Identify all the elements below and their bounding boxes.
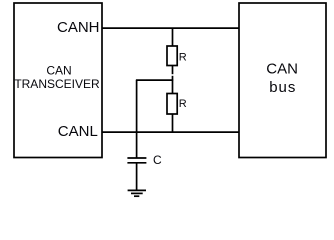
svg-text:TRANSCEIVER: TRANSCEIVER <box>14 77 100 91</box>
wire CANH net <box>102 27 239 29</box>
CAN transceiver box U1 <box>14 3 102 158</box>
ground <box>128 190 146 196</box>
wire resistor R top to node <box>172 66 174 75</box>
label CAN TRANSCEIVER <box>14 64 100 92</box>
wire node to resistor R bottom <box>172 76 174 94</box>
svg-text:C: C <box>153 153 162 167</box>
svg-text:bus: bus <box>269 79 296 96</box>
svg-text:CANL: CANL <box>58 123 98 140</box>
wire CANH to resistor R top <box>172 28 174 46</box>
svg-text:R: R <box>179 98 187 110</box>
svg-text:R: R <box>179 52 187 64</box>
resistor R bottom <box>167 94 177 115</box>
label CAN bus <box>266 61 298 96</box>
wire split node horizontal <box>136 79 173 81</box>
wire node to capacitor C <box>136 80 138 158</box>
resistor R top <box>167 46 177 66</box>
svg-text:CANH: CANH <box>57 19 100 36</box>
wire resistor R bottom to CANL <box>172 114 174 132</box>
svg-text:CAN: CAN <box>46 64 71 78</box>
wire capacitor to ground <box>136 163 138 191</box>
CAN bus box <box>239 3 326 158</box>
capacitor C <box>127 158 146 163</box>
wire CANL net <box>102 131 239 133</box>
svg-text:CAN: CAN <box>266 61 298 78</box>
